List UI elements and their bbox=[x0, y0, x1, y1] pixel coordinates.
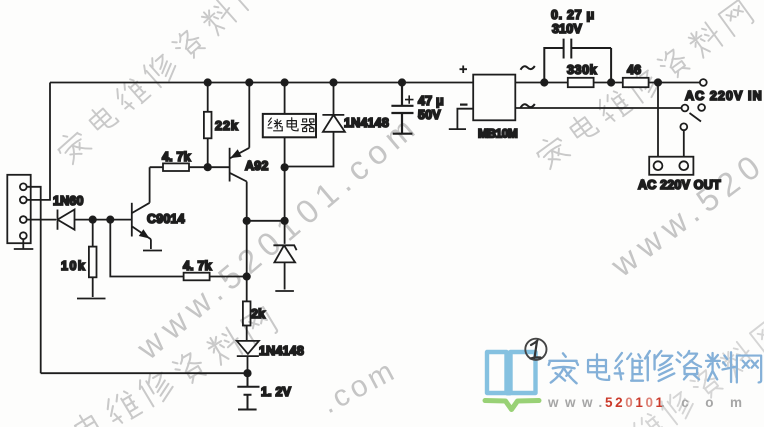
svg-text:.com: .com bbox=[661, 395, 759, 410]
svg-text:C9014: C9014 bbox=[147, 212, 185, 226]
svg-text:1N60: 1N60 bbox=[53, 194, 84, 208]
svg-text:2k: 2k bbox=[251, 307, 265, 321]
svg-text:A92: A92 bbox=[245, 159, 269, 173]
svg-text:310V: 310V bbox=[552, 22, 582, 36]
resistor 10k bbox=[92, 220, 94, 297]
svg-text:www.: www. bbox=[547, 395, 609, 410]
logo calligraphy 家电维修资料网 bbox=[549, 351, 761, 383]
node dot 22k top bbox=[205, 79, 211, 85]
wire down to AC OUT socket bbox=[657, 83, 659, 157]
terminal circle ac2 bbox=[682, 105, 689, 112]
svg-text:1. 2V: 1. 2V bbox=[261, 385, 292, 399]
resistor 330k bbox=[568, 78, 594, 87]
svg-text:1N4148: 1N4148 bbox=[259, 344, 304, 358]
svg-text:4. 7k: 4. 7k bbox=[183, 259, 212, 273]
switch S1 bbox=[698, 104, 705, 111]
connector J1 bbox=[7, 175, 30, 243]
battery 1.2V bbox=[237, 373, 259, 409]
terminal circle AC IN top bbox=[700, 79, 707, 86]
capacitor 47u bbox=[391, 83, 413, 134]
node dot cap right bbox=[608, 79, 614, 85]
node dot after 46 bbox=[655, 79, 661, 85]
capacitor 0.27u loop bbox=[544, 39, 611, 83]
node dot at 4.7k join bbox=[244, 273, 250, 279]
watermark 家电维修资料网 right bbox=[532, 0, 754, 171]
wire connector pin1 to bottom-left vertical bbox=[26, 187, 41, 373]
svg-text:.com: .com bbox=[316, 353, 403, 420]
svg-text:47 μ: 47 μ bbox=[418, 94, 444, 108]
svg-text:520101: 520101 bbox=[605, 395, 666, 410]
node dot base-right bbox=[107, 216, 113, 222]
svg-text:330k: 330k bbox=[567, 63, 597, 77]
node dot base-left bbox=[90, 216, 96, 222]
logo url www.520101.com bbox=[547, 395, 759, 410]
wire pin-node down to lower 4.7k bbox=[110, 220, 183, 277]
node dot 22k bottom bbox=[205, 164, 211, 170]
svg-text:AC 220V IN: AC 220V IN bbox=[685, 89, 763, 103]
wire collector junction to relay line bbox=[247, 220, 285, 222]
svg-text:1N4148: 1N4148 bbox=[344, 116, 389, 130]
watermark 家电维修资料网 top-left bbox=[53, 0, 267, 166]
resistor 4.7k upper bbox=[163, 163, 189, 171]
bridge rectifier MB10M bbox=[473, 75, 515, 121]
node dot cap left bbox=[541, 79, 547, 85]
node dot A92 emitter at rail bbox=[246, 79, 252, 85]
node dot 47u at rail bbox=[399, 79, 405, 85]
node dot relay/collector junction bbox=[281, 218, 287, 224]
wire top rail left bbox=[50, 82, 473, 84]
ground under C9014 emitter bbox=[143, 250, 162, 252]
transistor C9014 bbox=[131, 203, 133, 237]
diode 1N60 bbox=[58, 210, 75, 230]
wire MB10M minus to ground bbox=[449, 109, 473, 129]
wire 1N60 to C9014 base bbox=[74, 219, 132, 221]
node A92 collector junction bbox=[244, 218, 250, 224]
logo book icon bbox=[487, 351, 536, 396]
svg-text:AC 220V OUT: AC 220V OUT bbox=[638, 178, 721, 192]
ground under 10k bbox=[77, 298, 106, 300]
diode 1N4148 upper bbox=[285, 83, 345, 167]
node dot 1N4148 at rail bbox=[330, 79, 336, 85]
resistor 2k bbox=[243, 301, 251, 325]
logo circled 1 bbox=[525, 339, 546, 360]
wire MB10M ac2 to switch bbox=[516, 107, 682, 109]
resistor 4.7k lower bbox=[184, 273, 210, 281]
node dot relay/diode junction bbox=[281, 164, 287, 170]
node dot relay at rail bbox=[281, 79, 287, 85]
resistor 46 bbox=[623, 78, 649, 87]
wire down to 2k bbox=[246, 221, 248, 302]
wire bottom long horizontal bbox=[41, 372, 248, 374]
zener diode D3 bbox=[273, 245, 296, 291]
transistor A92 bbox=[229, 148, 231, 182]
ground under connector bbox=[14, 239, 34, 249]
AC OUT socket box bbox=[649, 157, 693, 175]
wire connector pin3 to diode bbox=[27, 219, 56, 221]
relay coil box 继电器 bbox=[284, 83, 286, 244]
wire top rail right bbox=[516, 82, 701, 84]
svg-text:www.520101.com: www.520101.com bbox=[129, 106, 427, 367]
svg-text:10k: 10k bbox=[61, 259, 86, 273]
wire left drop from rail to connector pin2 bbox=[26, 83, 50, 200]
watermark 修资料网 faint behind logo bbox=[628, 317, 764, 427]
watermark 电维修资料网 bottom-left bbox=[72, 306, 278, 427]
logo green swoosh bbox=[485, 401, 539, 410]
svg-text:0. 27 μ: 0. 27 μ bbox=[551, 8, 595, 22]
diode 1N4148 lower bbox=[237, 341, 259, 373]
node dot battery junction bbox=[244, 370, 250, 376]
svg-text:www.520: www.520 bbox=[603, 144, 764, 284]
svg-text:MB10M: MB10M bbox=[478, 127, 518, 141]
svg-text:46: 46 bbox=[627, 63, 641, 77]
svg-text:4. 7k: 4. 7k bbox=[162, 150, 191, 164]
svg-text:22k: 22k bbox=[215, 119, 239, 133]
resistor 22k bbox=[207, 83, 209, 168]
svg-text:50V: 50V bbox=[418, 108, 441, 122]
